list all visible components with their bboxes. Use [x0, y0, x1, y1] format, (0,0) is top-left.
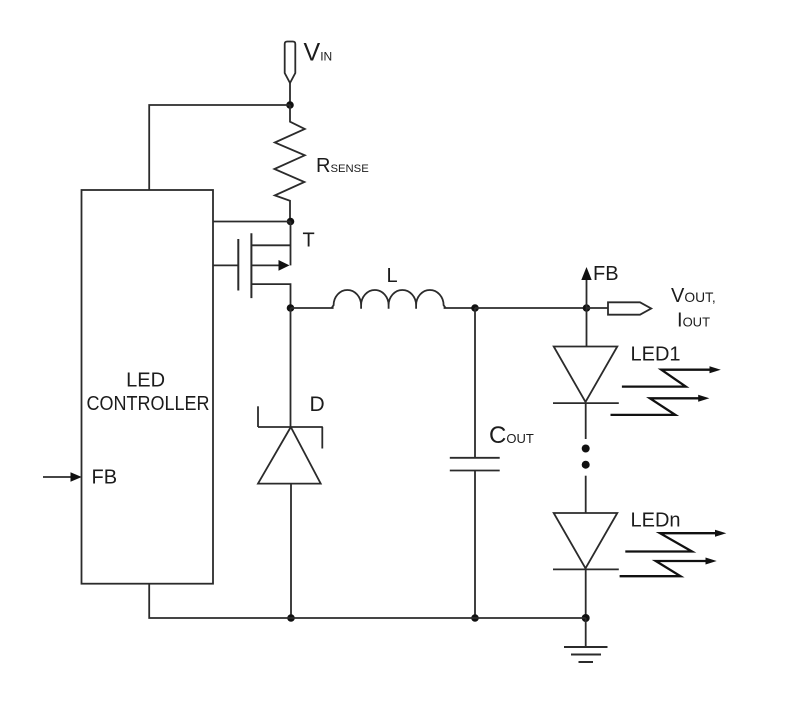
emission arrow LEDn b	[620, 558, 717, 577]
transistor T (MOSFET)	[238, 222, 290, 309]
svg-text:L: L	[387, 265, 398, 287]
wire node E to LED1	[586, 308, 588, 347]
svg-text:LED1: LED1	[631, 344, 681, 366]
svg-text:LED: LED	[126, 370, 165, 392]
svg-text:FB: FB	[92, 467, 118, 489]
node F (ground junction)	[582, 614, 590, 622]
capacitor COUT	[450, 458, 500, 471]
wire capacitor COUT to bottom rail	[474, 471, 476, 619]
wire node D to node E	[475, 307, 587, 309]
inductor L	[332, 290, 446, 309]
wire controller to gate	[213, 264, 238, 266]
wire node E to VOUT terminal	[587, 307, 609, 309]
wire LED1 to ellipsis	[585, 403, 587, 439]
node E (LED string top)	[583, 304, 591, 312]
FB input arrow	[43, 472, 82, 481]
resistor RSENSE	[274, 105, 304, 222]
bottom rail wire	[149, 584, 586, 618]
node D (output node)	[471, 304, 479, 312]
wire LEDn to node F	[585, 569, 587, 618]
svg-text:D: D	[310, 393, 325, 416]
node B (drain / sense junction)	[287, 218, 295, 226]
wire node B to controller (sense)	[213, 221, 291, 223]
wire node C to diode D	[290, 308, 292, 427]
wire ellipsis to LEDn	[585, 476, 587, 513]
LED LEDn	[553, 513, 619, 569]
emission arrow LEDn a	[625, 530, 726, 552]
svg-text:LEDn: LEDn	[631, 510, 681, 532]
wire node A to controller top	[149, 105, 290, 190]
svg-text:FB: FB	[593, 263, 619, 285]
wire VIN terminal to node A	[289, 83, 291, 105]
terminal VOUT / IOUT	[608, 302, 651, 314]
wire node C to inductor	[291, 307, 334, 309]
svg-text:CONTROLLER: CONTROLLER	[87, 393, 210, 415]
node A (VIN junction)	[286, 101, 294, 109]
emission arrow LED1 b	[611, 395, 710, 415]
FB arrow at output	[581, 267, 591, 308]
ellipsis dots (more LEDs)	[582, 445, 590, 453]
LED controller U1 box	[82, 190, 214, 584]
emission arrow LED1 a	[622, 366, 721, 386]
terminal VIN	[285, 42, 296, 84]
svg-text:T: T	[303, 230, 315, 252]
diode D (freewheel schottky)	[258, 406, 323, 483]
node H (capacitor / rail junction)	[471, 614, 479, 622]
wire node D to capacitor COUT	[474, 308, 476, 458]
ground	[564, 618, 608, 662]
node C (switch node)	[287, 304, 295, 312]
wire diode D to bottom rail	[290, 484, 292, 618]
node G (diode / rail junction)	[287, 614, 295, 622]
wire inductor to node D	[444, 307, 475, 309]
LED LED1	[553, 347, 619, 404]
